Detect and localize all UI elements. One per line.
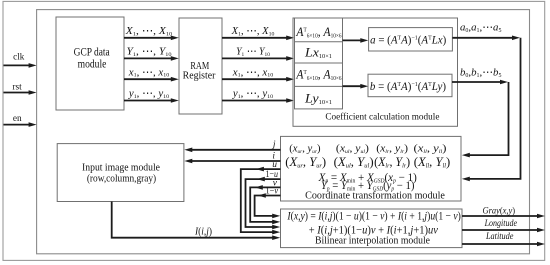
op a-equation box bbox=[369, 28, 453, 51]
node (xll,yll) bbox=[414, 143, 447, 155]
coordinate transformation module box bbox=[281, 136, 462, 201]
node (xlr,ylr) bbox=[376, 143, 408, 155]
svg-text:Input image module: Input image module bbox=[82, 162, 160, 173]
cell divider 3 bbox=[295, 85, 343, 87]
wire x1..x10 GCP to RAM bbox=[124, 67, 179, 82]
svg-text:Coefficient calculation module: Coefficient calculation module bbox=[325, 111, 439, 122]
wire y1..y10 GCP to RAM bbox=[124, 89, 179, 103]
node (Xul,Yul) bbox=[334, 155, 374, 169]
svg-text:b = (ATA)−1(ATLy): b = (ATA)−1(ATLy) bbox=[370, 81, 446, 93]
wire I(i,j) image data bbox=[112, 202, 281, 241]
coefficient calculation module box bbox=[293, 18, 458, 126]
wire u feedback loop bbox=[241, 160, 281, 234]
wire Y1..Y10 RAM to coefficient module bbox=[222, 46, 294, 60]
bilinear interpolation module box bbox=[281, 209, 463, 248]
input clk bbox=[4, 51, 37, 68]
svg-text:I(x,y) = I(i,j)(1 − u)(1 − v): I(x,y) = I(i,j)(1 − u)(1 − v) + I(i + 1,… bbox=[286, 211, 461, 223]
svg-text:module: module bbox=[78, 59, 107, 71]
svg-text:Yp = Ymin + YGSD(yp − 1): Yp = Ymin + YGSD(yp − 1) bbox=[321, 180, 415, 193]
wire x1..x10 RAM to coefficient module bbox=[222, 67, 294, 82]
node (Xll,Yll) bbox=[414, 155, 451, 169]
svg-text:Bilinear interpolation module: Bilinear interpolation module bbox=[315, 235, 430, 246]
cell A matrices (bottom) bbox=[295, 67, 341, 82]
wire 1-v feedback loop bbox=[255, 185, 281, 218]
svg-text:I(i,j): I(i,j) bbox=[194, 226, 212, 238]
cell A matrices (top) bbox=[295, 24, 341, 39]
input rst bbox=[4, 83, 37, 95]
wire j feedback bbox=[184, 140, 280, 152]
GCP data module bbox=[56, 17, 124, 110]
svg-text:Register: Register bbox=[183, 71, 216, 82]
cell divider 1 bbox=[295, 41, 343, 43]
input image module bbox=[57, 144, 184, 202]
svg-text:(xul, yul): (xul, yul) bbox=[336, 143, 369, 155]
svg-text:(xlr, ylr): (xlr, ylr) bbox=[376, 143, 408, 155]
svg-text:a = (ATA)−1(ATLx): a = (ATA)−1(ATLx) bbox=[370, 34, 446, 46]
svg-text:(row,column,gray): (row,column,gray) bbox=[87, 173, 156, 184]
wire v feedback loop bbox=[250, 178, 280, 224]
wire cells to b-equation bbox=[343, 84, 369, 89]
node (xul,yul) bbox=[336, 143, 369, 155]
wire i feedback bbox=[184, 152, 280, 164]
svg-text:(xur, yur): (xur, yur) bbox=[289, 144, 321, 155]
op b-equation box bbox=[368, 74, 452, 97]
wire X1..X10 GCP to RAM bbox=[124, 25, 179, 40]
node (Xlr,Ylr) bbox=[374, 155, 410, 170]
wire X1..X10 RAM to coefficient module bbox=[222, 26, 294, 40]
wire a coefficients bus bbox=[452, 23, 520, 182]
output Longitude bbox=[462, 217, 545, 232]
wire y1..y10 RAM to coefficient module bbox=[222, 89, 294, 103]
matrix cell column box bbox=[295, 18, 343, 109]
output Gray(x,y) bbox=[462, 205, 545, 218]
svg-text:X1, ⋯, X10: X1, ⋯, X10 bbox=[231, 26, 275, 37]
cell divider 2 bbox=[295, 62, 343, 64]
output Latitude bbox=[462, 230, 545, 246]
svg-text:Gray(x,y): Gray(x,y) bbox=[482, 205, 515, 216]
svg-text:GCP data: GCP data bbox=[74, 47, 110, 59]
node (xur,yur) bbox=[289, 144, 321, 155]
equation Yp bbox=[321, 180, 415, 193]
wire Y1..Y10 GCP to RAM bbox=[124, 46, 179, 61]
svg-text:Longitude: Longitude bbox=[484, 217, 517, 228]
wire cells to a-equation bbox=[343, 38, 369, 43]
wire b coefficients bus bbox=[452, 68, 509, 158]
svg-text:1−v: 1−v bbox=[266, 185, 279, 196]
svg-text:X1, ⋯, X10: X1, ⋯, X10 bbox=[125, 25, 172, 37]
svg-text:Latitude: Latitude bbox=[485, 230, 513, 241]
RAM Register bbox=[179, 18, 222, 114]
cell Ly vector bbox=[304, 91, 332, 106]
wire 1-u feedback loop bbox=[246, 168, 281, 229]
node (Xur,Yur) bbox=[285, 155, 326, 169]
cell Lx vector bbox=[304, 45, 332, 60]
svg-text:en: en bbox=[13, 114, 22, 124]
svg-text:(xll, yll): (xll, yll) bbox=[414, 143, 447, 155]
equation Xp bbox=[318, 172, 417, 185]
input en bbox=[4, 114, 37, 127]
svg-text:clk: clk bbox=[13, 51, 24, 61]
svg-text:rst: rst bbox=[12, 83, 22, 93]
